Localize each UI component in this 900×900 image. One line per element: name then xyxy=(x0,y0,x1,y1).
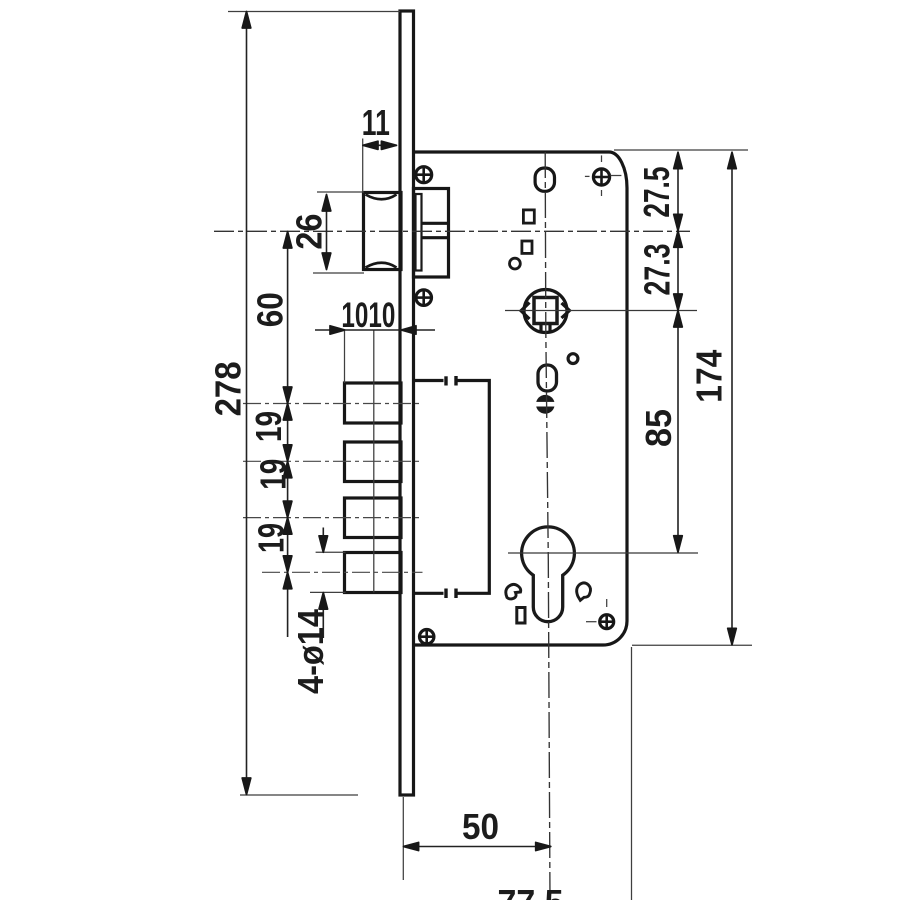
bottom right extension line xyxy=(632,644,752,646)
dim 50 xyxy=(403,797,551,880)
svg-text:27.5: 27.5 xyxy=(636,167,677,218)
kidney blob left xyxy=(506,584,521,599)
slotted screw center xyxy=(536,395,555,414)
bolt 3 centerline xyxy=(243,517,423,519)
deadbolt case box xyxy=(414,376,489,598)
screw mid left xyxy=(416,290,432,306)
top right extension line xyxy=(614,149,748,151)
dim 11 xyxy=(362,102,397,193)
svg-text:77.5: 77.5 xyxy=(498,882,564,900)
svg-text:27.3: 27.3 xyxy=(637,244,678,296)
deadbolt pin 2 xyxy=(345,442,402,482)
faceplate xyxy=(400,11,414,795)
svg-text:174: 174 xyxy=(689,349,730,403)
svg-text:19: 19 xyxy=(253,459,294,490)
svg-text:26: 26 xyxy=(289,214,330,250)
svg-text:85: 85 xyxy=(638,409,679,447)
latch bolt xyxy=(364,193,402,270)
small square 2 xyxy=(522,241,532,253)
svg-text:19: 19 xyxy=(251,523,292,553)
dim 27.5 / 27.3 / 85 xyxy=(636,152,682,552)
svg-text:19: 19 xyxy=(248,411,289,442)
deadbolt pin 4 xyxy=(345,553,402,593)
bolt 2 centerline xyxy=(243,460,423,462)
oval slot top xyxy=(535,168,554,191)
euro cylinder hole xyxy=(522,527,575,622)
dim 26 xyxy=(289,192,364,273)
bolt guide line xyxy=(373,331,375,593)
bolt 1 centerline xyxy=(243,403,423,405)
svg-text:11: 11 xyxy=(362,102,390,143)
deadbolt pin 3 xyxy=(345,498,402,538)
svg-text:1010: 1010 xyxy=(341,296,395,335)
latch follower housing xyxy=(414,189,449,278)
small hole right of oval xyxy=(568,354,578,364)
dim 4-dia14 xyxy=(290,528,345,695)
svg-text:278: 278 xyxy=(208,361,249,416)
deadbolt pin 1 xyxy=(345,383,402,423)
dim chain 60 / 19 / 19 / 19 xyxy=(248,232,294,638)
lock case body xyxy=(414,152,628,645)
screw bottom right xyxy=(586,599,614,629)
oval slot mid xyxy=(538,365,557,391)
dim 174 xyxy=(689,152,737,645)
bolt 4 centerline xyxy=(262,571,423,573)
small square 1 xyxy=(523,210,534,223)
spindle follower xyxy=(521,290,570,334)
screw top left xyxy=(416,167,432,183)
small rect bottom xyxy=(517,608,525,624)
cylinder centerline horizontal xyxy=(508,552,698,554)
kidney blob right xyxy=(577,583,591,600)
right edge extension line down xyxy=(631,647,633,900)
main vertical centerline xyxy=(545,152,550,900)
main horizontal centerline xyxy=(214,230,690,232)
dim 278 xyxy=(208,12,400,796)
svg-text:60: 60 xyxy=(250,292,291,327)
screw bottom left xyxy=(420,630,434,644)
svg-text:50: 50 xyxy=(462,806,499,847)
small hole left xyxy=(510,258,521,269)
svg-text:4-ø14: 4-ø14 xyxy=(290,608,331,694)
spindle centerline horizontal xyxy=(505,310,697,312)
screw top right xyxy=(585,155,622,196)
dim 10 10 xyxy=(315,296,435,383)
